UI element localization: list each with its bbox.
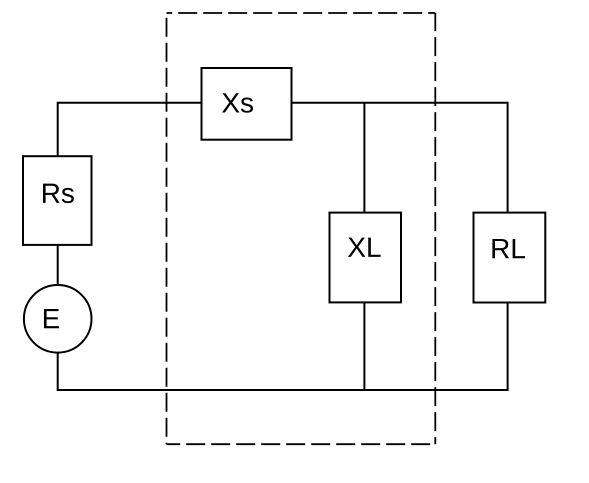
label Rs bbox=[43, 184, 74, 204]
inductive reactance XL bbox=[330, 213, 402, 303]
wire from Rs bottom to E top bbox=[57, 245, 59, 285]
wire from Xs right pin to RL branch corner bbox=[292, 103, 508, 213]
wire from XL bottom to bottom rail bbox=[363, 302, 365, 390]
load resistor RL bbox=[474, 213, 546, 303]
wire junction drop to XL top bbox=[363, 103, 365, 213]
wire from E bottom along bottom rail up to RL bottom bbox=[58, 303, 508, 391]
wire from Rs top to Xs left pin bbox=[58, 103, 202, 156]
label RL bbox=[492, 239, 525, 258]
label E bbox=[44, 309, 59, 328]
voltage source E bbox=[24, 285, 92, 353]
label XL bbox=[348, 238, 381, 257]
dashed matching-network boundary box bbox=[167, 13, 436, 444]
reactance block Xs bbox=[202, 68, 292, 140]
label Xs bbox=[222, 93, 253, 113]
resistor Rs bbox=[23, 156, 92, 245]
